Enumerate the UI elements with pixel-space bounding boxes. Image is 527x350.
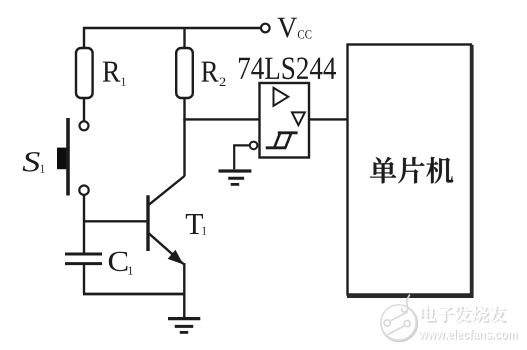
wire capacitor to bottom rail: [83, 264, 85, 294]
label R2: [201, 62, 218, 82]
watermark text 电子发烧友: [422, 307, 508, 324]
watermark url: [420, 330, 518, 340]
wire switch to capacitor: [83, 195, 85, 253]
wire node to 74LS244 input: [183, 118, 259, 120]
terminal Vcc: [261, 24, 270, 33]
ground at enable pin: [219, 171, 252, 184]
label S1: [23, 152, 40, 171]
wire 74LS244 output to MCU: [309, 118, 347, 120]
wire R1 bottom to switch: [83, 98, 85, 121]
wire bottom rail: [83, 293, 185, 296]
watermark logo: [381, 295, 417, 342]
enable pin circle: [250, 142, 258, 150]
label T1: [186, 214, 203, 234]
switch S1: [57, 118, 89, 196]
wire R2 to collector: [183, 98, 185, 176]
ground at emitter: [168, 319, 200, 333]
wire base node to T1: [84, 220, 147, 222]
MCU box: [347, 45, 472, 297]
resistor R1: [76, 48, 93, 98]
capacitor C1 plates: [65, 254, 102, 264]
wire enable to ground: [234, 145, 250, 169]
label V_CC: [278, 18, 298, 38]
label R1: [103, 62, 120, 82]
label 74LS244: [239, 57, 336, 79]
buffer U1 74LS244 box: [260, 83, 310, 158]
resistor R2: [176, 48, 193, 98]
label MCU 单片机: [370, 157, 453, 183]
label C1: [109, 252, 128, 271]
wire Vcc rail: [84, 28, 261, 48]
wire emitter to ground: [183, 263, 185, 318]
transistor T1: [148, 176, 185, 264]
wire R2 top stub: [183, 28, 185, 48]
